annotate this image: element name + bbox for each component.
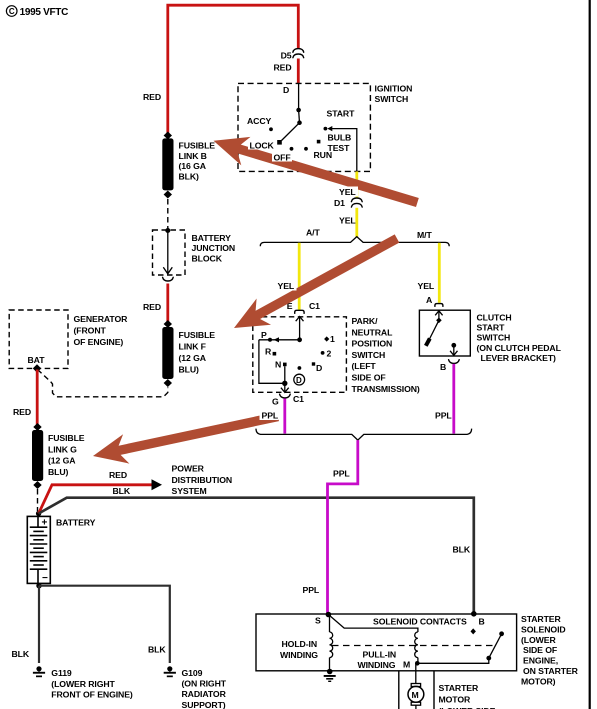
connector under junction block xyxy=(163,277,174,281)
park/neutral internal entry arrow xyxy=(299,317,301,340)
copyright notice xyxy=(6,6,68,18)
svg-text:BLK): BLK) xyxy=(179,171,200,181)
label PPL (halo over arrow) xyxy=(260,410,279,421)
svg-text:(12 GA: (12 GA xyxy=(48,456,76,466)
solenoid contact lever xyxy=(486,656,491,661)
wire RED junction block to link F xyxy=(166,284,169,323)
connector D5 xyxy=(293,49,304,58)
ground G109 xyxy=(164,666,176,677)
svg-text:NEUTRAL: NEUTRAL xyxy=(352,327,394,337)
svg-text:2: 2 xyxy=(327,349,332,359)
svg-text:BLK: BLK xyxy=(453,545,471,555)
wire hold-in to ground xyxy=(329,658,331,672)
svg-text:PPL: PPL xyxy=(333,469,350,479)
svg-text:PULL-IN: PULL-IN xyxy=(363,650,397,660)
ground (solenoid) xyxy=(324,669,336,682)
svg-text:CLUTCH: CLUTCH xyxy=(477,313,512,323)
park/neutral exit arrow xyxy=(284,383,286,392)
svg-text:D: D xyxy=(316,363,322,373)
svg-text:D: D xyxy=(283,85,289,95)
label D1 (halo over arrow) xyxy=(333,198,347,208)
svg-text:MOTOR): MOTOR) xyxy=(521,676,556,686)
svg-text:SWITCH: SWITCH xyxy=(352,350,386,360)
svg-text:D: D xyxy=(296,376,302,385)
svg-text:M: M xyxy=(403,660,410,670)
svg-text:SIDE OF: SIDE OF xyxy=(523,645,557,655)
brace wire split A/T M/T xyxy=(260,237,449,247)
svg-text:(FRONT: (FRONT xyxy=(74,326,107,336)
svg-text:TEST: TEST xyxy=(328,143,351,153)
park/neutral position switch box xyxy=(253,317,347,393)
fusible link B xyxy=(162,138,173,190)
wire P to bottom junction xyxy=(259,340,285,384)
node M xyxy=(415,661,420,666)
svg-text:TRANSMISSION): TRANSMISSION) xyxy=(352,384,420,394)
wire M to starter motor xyxy=(415,663,417,683)
contact 1 xyxy=(324,336,329,341)
svg-text:1995 VFTC: 1995 VFTC xyxy=(20,7,69,18)
svg-text:RED: RED xyxy=(109,470,127,480)
svg-text:RED: RED xyxy=(143,92,161,102)
svg-text:PPL: PPL xyxy=(303,585,320,595)
big arrow 3 (points at fusible link G) xyxy=(93,412,279,464)
svg-text:G109: G109 xyxy=(182,668,203,678)
wire link B to junction block (dashed) xyxy=(167,199,169,229)
svg-text:PARK/: PARK/ xyxy=(352,316,379,326)
svg-text:D5: D5 xyxy=(281,51,292,61)
starter solenoid box xyxy=(256,614,517,671)
svg-text:BATTERY: BATTERY xyxy=(192,233,232,243)
svg-text:FUSIBLE: FUSIBLE xyxy=(179,141,216,151)
svg-text:C1: C1 xyxy=(309,301,320,311)
connector G C1 xyxy=(280,394,291,398)
svg-text:S: S xyxy=(315,616,321,626)
wire START to yellow feed xyxy=(332,129,357,172)
fusible link F xyxy=(162,327,173,379)
connector E C1 xyxy=(295,310,304,314)
clutch switch entry arrow xyxy=(438,311,440,321)
arrow to power distribution system xyxy=(152,479,163,490)
big arrow 2 (points at park/neutral switch connector) xyxy=(234,234,399,328)
svg-text:START: START xyxy=(327,109,356,119)
svg-text:C1: C1 xyxy=(293,394,304,404)
ignition switch box xyxy=(238,83,370,171)
wire PPL from clutch B xyxy=(452,364,455,434)
svg-text:A: A xyxy=(426,295,433,305)
big arrow 1 (points at fusible link B) xyxy=(214,137,419,207)
svg-text:ON STARTER: ON STARTER xyxy=(523,666,579,676)
svg-text:RED: RED xyxy=(143,302,161,312)
wire RED BAT to link G xyxy=(36,370,39,426)
svg-text:(ON RIGHT: (ON RIGHT xyxy=(182,679,227,689)
brace PPL join xyxy=(256,429,472,441)
page edge line xyxy=(589,0,591,709)
label YEL A/T (halo over arrow) xyxy=(276,281,297,291)
connector B xyxy=(449,360,460,364)
svg-text:(LOWER: (LOWER xyxy=(521,635,556,645)
svg-text:RED: RED xyxy=(13,407,31,417)
svg-text:A/T: A/T xyxy=(306,228,320,238)
connector D1 xyxy=(351,198,362,207)
wire YEL M/T branch xyxy=(438,243,441,303)
svg-text:POSITION: POSITION xyxy=(352,339,393,349)
svg-text:HOLD-IN: HOLD-IN xyxy=(282,639,318,649)
svg-text:R: R xyxy=(265,347,272,357)
svg-text:POWER: POWER xyxy=(172,464,205,474)
svg-text:M/T: M/T xyxy=(417,230,432,240)
node BAT terminal xyxy=(33,364,41,372)
battery internal plates xyxy=(30,516,48,583)
svg-text:DISTRIBUTION: DISTRIBUTION xyxy=(172,475,233,485)
svg-text:ENGINE,: ENGINE, xyxy=(523,656,558,666)
svg-text:BLU): BLU) xyxy=(48,467,69,477)
svg-text:SWITCH: SWITCH xyxy=(375,94,409,104)
svg-text:OF ENGINE): OF ENGINE) xyxy=(74,337,124,347)
svg-text:ACCY: ACCY xyxy=(247,116,272,126)
wire dashed link G to battery xyxy=(37,489,39,511)
wire BLK battery to G109 xyxy=(39,586,170,663)
svg-text:SYSTEM: SYSTEM xyxy=(172,486,207,496)
wire RED D5 to ignition switch xyxy=(297,59,300,85)
svg-text:(LEFT: (LEFT xyxy=(352,361,377,371)
svg-text:START: START xyxy=(477,323,506,333)
wire dashed BAT to link F bottom xyxy=(38,370,168,397)
wire BLK battery to solenoid B xyxy=(39,498,474,613)
contact under B xyxy=(471,628,476,634)
circled D indicator xyxy=(294,374,305,385)
battery xyxy=(27,516,50,583)
wire PPL from G C1 xyxy=(283,399,286,434)
battery junction block xyxy=(153,230,186,275)
svg-text:BAT: BAT xyxy=(28,355,46,365)
svg-text:LINK G: LINK G xyxy=(48,444,77,454)
svg-text:FRONT OF ENGINE): FRONT OF ENGINE) xyxy=(51,690,133,700)
svg-text:N: N xyxy=(275,360,281,370)
svg-text:FUSIBLE: FUSIBLE xyxy=(179,330,216,340)
svg-text:D1: D1 xyxy=(334,198,345,208)
wire YEL from ignition switch xyxy=(355,171,358,197)
svg-text:YEL: YEL xyxy=(278,281,295,291)
clutch start switch box xyxy=(419,310,470,356)
svg-text:(12 GA: (12 GA xyxy=(179,353,207,363)
wire YEL D1 to split xyxy=(355,208,358,237)
node B xyxy=(471,611,477,617)
svg-text:RED: RED xyxy=(273,63,291,73)
svg-text:LINK F: LINK F xyxy=(179,342,206,352)
wire wiper to P contact xyxy=(259,339,300,341)
svg-text:(LOWER RIGHT: (LOWER RIGHT xyxy=(51,679,115,689)
svg-text:SOLENOID: SOLENOID xyxy=(521,624,566,634)
svg-text:1: 1 xyxy=(330,334,335,344)
contact 2 xyxy=(321,351,325,355)
label OFF (halo over arrow) xyxy=(272,153,292,161)
center contact xyxy=(298,366,302,370)
svg-text:PPL: PPL xyxy=(262,411,279,421)
svg-text:P: P xyxy=(261,330,267,340)
svg-text:WINDING: WINDING xyxy=(280,650,318,660)
svg-text:FUSIBLE: FUSIBLE xyxy=(48,433,85,443)
wire BLK battery to G119 xyxy=(38,586,40,663)
svg-text:BATTERY: BATTERY xyxy=(56,518,96,528)
svg-text:−: − xyxy=(42,573,48,584)
svg-text:LOCK: LOCK xyxy=(250,141,275,151)
fusible link G xyxy=(32,430,43,481)
clutch switch lever xyxy=(429,320,439,341)
svg-text:GENERATOR: GENERATOR xyxy=(74,314,129,324)
svg-text:SUPPORT): SUPPORT) xyxy=(182,700,226,709)
wire RED top loop (battery feed to ignition switch) xyxy=(168,5,298,133)
svg-text:BULB: BULB xyxy=(328,133,352,143)
svg-text:BLOCK: BLOCK xyxy=(192,253,223,263)
svg-text:BLK: BLK xyxy=(113,486,131,496)
svg-text:G: G xyxy=(272,397,279,407)
label YEL (halo over arrow) xyxy=(337,187,358,197)
pull-in winding coil xyxy=(415,632,418,658)
wire N to bottom junction xyxy=(284,366,286,383)
svg-text:BLU): BLU) xyxy=(179,365,200,375)
svg-text:BLK: BLK xyxy=(12,649,30,659)
svg-text:WINDING: WINDING xyxy=(358,660,396,670)
node battery positive junction xyxy=(36,511,41,516)
svg-text:IGNITION: IGNITION xyxy=(375,84,413,94)
connector A xyxy=(435,304,443,307)
wire YEL A/T branch xyxy=(298,243,301,310)
mechanical linkage dashed xyxy=(332,645,494,647)
svg-text:M: M xyxy=(412,690,419,700)
node S xyxy=(326,612,332,618)
label LOCK (halo over arrow) xyxy=(248,141,277,150)
wire PPL join to solenoid S xyxy=(328,440,358,613)
wire M to contact lever xyxy=(417,658,489,663)
svg-text:RADIATOR: RADIATOR xyxy=(182,689,227,699)
contact D xyxy=(312,362,315,365)
svg-text:B: B xyxy=(440,362,446,372)
svg-text:SWITCH: SWITCH xyxy=(477,333,511,343)
svg-text:JUNCTION: JUNCTION xyxy=(192,243,236,253)
svg-text:BLK: BLK xyxy=(148,645,166,655)
svg-text:B: B xyxy=(479,617,485,627)
wire D terminal into switch xyxy=(298,84,300,110)
clutch switch B contact arrow xyxy=(451,343,456,348)
wire S to hold-in winding xyxy=(329,615,331,633)
svg-text:(16 GA: (16 GA xyxy=(179,161,207,171)
svg-text:OFF: OFF xyxy=(274,153,291,163)
svg-text:G119: G119 xyxy=(51,668,72,678)
wire S to pull-in winding xyxy=(328,615,418,633)
node battery negative junction xyxy=(36,583,41,588)
svg-text:C: C xyxy=(9,7,15,16)
svg-text:SIDE OF: SIDE OF xyxy=(352,373,386,383)
svg-text:SOLENOID CONTACTS: SOLENOID CONTACTS xyxy=(373,617,467,627)
svg-text:MOTOR: MOTOR xyxy=(439,694,472,704)
svg-text:PPL: PPL xyxy=(435,411,452,421)
svg-text:STARTER: STARTER xyxy=(439,683,480,693)
hold-in winding coil xyxy=(330,632,333,658)
svg-text:STARTER: STARTER xyxy=(521,614,562,624)
svg-text:YEL: YEL xyxy=(418,281,435,291)
svg-text:(ON CLUTCH PEDAL: (ON CLUTCH PEDAL xyxy=(477,343,562,353)
svg-text:YEL: YEL xyxy=(339,216,356,226)
ground G119 xyxy=(33,666,45,677)
generator box xyxy=(9,310,68,368)
ignition switch wiper lever to LOCK xyxy=(282,123,300,141)
wire RED to power distribution xyxy=(39,485,152,514)
starter motor M xyxy=(408,684,424,709)
wire pull-in to M xyxy=(417,658,419,664)
svg-text:LEVER BRACKET): LEVER BRACKET) xyxy=(481,353,557,363)
svg-text:LINK B: LINK B xyxy=(179,151,207,161)
starter motor box sides xyxy=(398,671,400,709)
svg-text:YEL: YEL xyxy=(339,187,356,197)
